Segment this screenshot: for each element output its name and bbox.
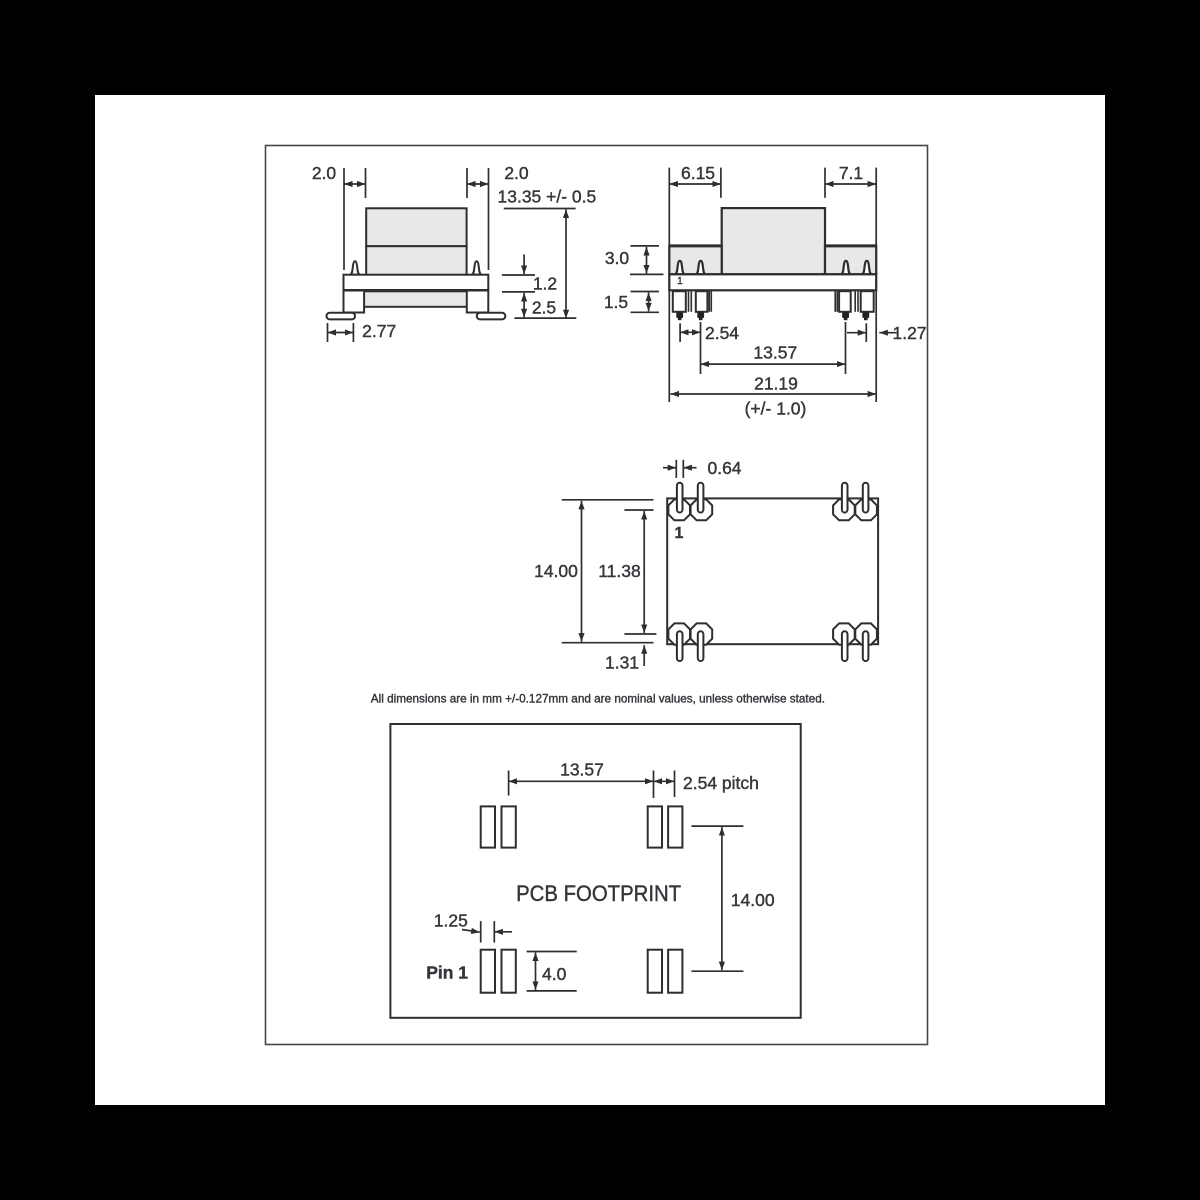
fp dim 4.0 arrow <box>535 953 537 990</box>
dim 2.77 arrow <box>328 332 354 334</box>
fp pad TR2 <box>668 806 682 847</box>
dim 0.64 arrow right <box>683 467 696 469</box>
dim 7.1 tick left <box>824 168 826 198</box>
dim 6.15 arrow <box>669 183 721 185</box>
dim 0.64 tick left <box>675 460 677 478</box>
front foot 3 <box>842 312 849 318</box>
side view right lead block <box>467 291 489 313</box>
svg-text:PCB FOOTPRINT: PCB FOOTPRINT <box>516 881 681 906</box>
fp pad BR1 <box>648 950 662 993</box>
fp pad BR2 <box>668 950 682 993</box>
svg-text:13.57: 13.57 <box>560 760 604 780</box>
svg-text:2.0: 2.0 <box>504 163 529 183</box>
dim 1.2 upper line <box>502 274 535 276</box>
dim 14.00 ext bottom <box>562 642 654 644</box>
slot T4 <box>863 483 869 513</box>
slot B3 <box>842 631 848 661</box>
fp pad BL2 <box>502 950 516 993</box>
drawing frame <box>266 146 928 1045</box>
svg-text:0.64: 0.64 <box>707 458 741 478</box>
front right ext line <box>875 168 877 402</box>
dim 2.0 right ext line B <box>488 168 490 270</box>
svg-text:All dimensions are in mm +/-0.: All dimensions are in mm +/-0.127mm and … <box>371 692 825 706</box>
front view right wing <box>825 246 876 274</box>
fp pitch tick <box>674 771 676 798</box>
pad BL1 <box>668 623 690 644</box>
pad TL1 <box>668 499 690 520</box>
pad TL2 <box>691 499 713 520</box>
side view pin bump right <box>472 261 482 274</box>
pad BL2 <box>691 623 713 644</box>
seating plane line <box>514 317 576 319</box>
dim 2.0 left ext line A <box>343 168 345 270</box>
dim 2.77 tick right <box>352 323 354 342</box>
side view lower grey core <box>362 291 468 307</box>
fp dim 13.57 arrow <box>509 780 654 782</box>
front bump 1 <box>675 261 685 275</box>
fp pad BL1 <box>481 950 495 993</box>
dim 3.0 ext top <box>631 245 660 247</box>
svg-text:Pin 1: Pin 1 <box>426 963 468 983</box>
slot B2 <box>698 631 704 661</box>
svg-text:2.77: 2.77 <box>362 321 396 341</box>
svg-text:(+/- 1.0): (+/- 1.0) <box>745 399 807 419</box>
dim 2.5 upper line <box>502 291 535 293</box>
svg-text:7.1: 7.1 <box>839 163 863 183</box>
side view left foot <box>327 313 356 320</box>
dim 14.00 ext top <box>562 499 654 501</box>
front pins left group <box>673 291 708 312</box>
svg-text:11.38: 11.38 <box>598 561 641 581</box>
bottom view body <box>667 498 878 644</box>
svg-text:21.19: 21.19 <box>754 374 798 394</box>
dim 6.15 tick right <box>720 168 722 198</box>
dim 1.5 ext bottom <box>631 311 660 313</box>
dim 2.54 arrow <box>680 331 700 333</box>
fp dim 14.00 ext top <box>691 825 743 827</box>
svg-text:1.31: 1.31 <box>605 653 639 673</box>
dim 2.0 right ext line A <box>466 168 468 198</box>
dim 1.5 ext top <box>631 291 660 293</box>
svg-text:2.0: 2.0 <box>312 163 337 183</box>
fp pad TR1 <box>648 806 662 847</box>
svg-text:1.2: 1.2 <box>533 274 557 294</box>
fp dim 4.0 ext bottom <box>527 990 577 992</box>
fp dim 13.57 tick right <box>653 771 655 799</box>
svg-text:1.27: 1.27 <box>892 323 926 343</box>
dim 14.00 arrow <box>581 501 583 642</box>
fp dim 1.25 tick right <box>493 921 495 943</box>
slot T3 <box>842 483 848 513</box>
svg-text:1.25: 1.25 <box>434 911 468 931</box>
dim 13.35 vertical arrow <box>565 209 567 318</box>
svg-text:2.54 pitch: 2.54 pitch <box>683 773 759 793</box>
svg-text:1: 1 <box>677 276 683 287</box>
fp dim 1.25 arrow left <box>462 930 480 933</box>
svg-text:14.00: 14.00 <box>534 561 578 581</box>
dim 13.57 arrow <box>701 363 846 365</box>
slot B1 <box>677 631 683 661</box>
front foot 4 <box>862 312 869 318</box>
side view left lead block <box>344 291 365 313</box>
fp dim 4.0 ext top <box>527 951 577 953</box>
front bump 2 <box>696 261 706 275</box>
dim 3.0 ext bottom <box>630 273 664 275</box>
fp pad TL1 <box>481 806 495 847</box>
fp dim 14.00 ext bottom <box>691 970 743 972</box>
front pins right group <box>839 291 874 312</box>
front view left wing <box>669 246 721 274</box>
dim 2.0 left arrow <box>344 183 366 185</box>
svg-text:1: 1 <box>675 525 684 542</box>
dim 1.27 arrow <box>879 332 896 334</box>
fp dim 1.25 tick left <box>480 921 482 943</box>
dim 1.2 down arrow <box>523 254 525 274</box>
slot T2 <box>698 483 704 513</box>
fp dim 14.00 arrow <box>721 827 723 970</box>
dim 1.5 arrow <box>648 293 650 312</box>
slot T1 <box>677 483 683 513</box>
svg-text:14.00: 14.00 <box>731 890 775 910</box>
front view center block <box>722 208 825 274</box>
dim 3.0 arrow <box>646 247 648 274</box>
svg-text:2.5: 2.5 <box>532 298 556 318</box>
svg-text:13.35 +/- 0.5: 13.35 +/- 0.5 <box>498 187 597 207</box>
side view base plate <box>344 275 489 290</box>
side view body upper <box>366 208 466 246</box>
side view dim texts <box>312 163 596 341</box>
slot B4 <box>863 631 869 661</box>
dim 13.57 ext right <box>845 322 847 374</box>
side view right foot <box>477 313 506 320</box>
front foot 1 <box>676 312 869 320</box>
front view base plate <box>669 274 876 290</box>
svg-text:13.57: 13.57 <box>753 343 797 363</box>
side view pin bump left <box>350 261 360 274</box>
front view wing top edges thick <box>669 244 722 247</box>
svg-text:4.0: 4.0 <box>542 964 567 984</box>
fp pitch arrow <box>654 780 675 782</box>
dim 13.35 top reference line <box>504 208 576 210</box>
dim 11.38 arrow <box>643 511 645 633</box>
dim 13.57 ext left <box>700 322 702 374</box>
pad TR1 <box>833 499 855 520</box>
svg-text:2.54: 2.54 <box>705 323 739 343</box>
front bump 4 <box>862 261 872 275</box>
front left ext line <box>668 168 670 402</box>
dim 2.77 tick left <box>327 323 329 342</box>
svg-text:6.15: 6.15 <box>681 163 715 183</box>
front foot 2 <box>697 312 704 318</box>
right pitch arrow <box>847 332 866 334</box>
dim 11.38 ext bottom <box>624 633 656 635</box>
dim 2.5 vertical arrow <box>523 293 525 317</box>
dim 2.0 right arrow <box>467 183 489 185</box>
dim 0.64 tick right <box>682 460 684 478</box>
dim 7.1 arrow <box>825 183 876 185</box>
dim 0.64 arrow left <box>663 467 676 469</box>
svg-text:3.0: 3.0 <box>605 248 630 268</box>
pad TR2 <box>855 499 877 520</box>
svg-text:1.5: 1.5 <box>604 292 628 312</box>
dim 2.0 left ext line B <box>365 168 367 198</box>
fp dim 1.25 arrow right <box>494 931 512 933</box>
pad BR2 <box>855 623 877 644</box>
dim 2.54 tick left <box>679 323 681 342</box>
fp dim 13.57 tick left <box>508 771 510 796</box>
pad BR1 <box>833 623 855 644</box>
footprint box <box>390 724 800 1018</box>
fp pad TL2 <box>502 806 516 847</box>
front lower dims <box>671 322 897 394</box>
right pitch tick <box>865 323 867 342</box>
front bump 3 <box>841 261 851 275</box>
dim 11.38 ext top <box>624 509 653 511</box>
dim 21.19 arrow <box>671 393 877 395</box>
dim 1.31 up arrow <box>643 645 645 666</box>
side view body lower <box>366 246 466 275</box>
